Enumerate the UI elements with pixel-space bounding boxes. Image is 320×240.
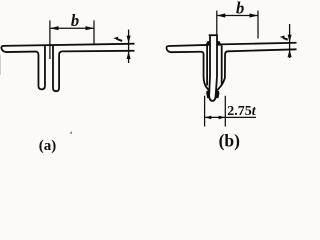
- figure (b) thickness dimension t: [289, 24, 291, 58]
- (b) small leader arrow: [280, 35, 285, 38]
- (b) left flange + lip outer: [166, 45, 209, 91]
- svg-text:(b): (b): [219, 130, 241, 150]
- arrow pointing down at plate top: [127, 36, 131, 44]
- svg-text:2.75t: 2.75t: [227, 104, 256, 119]
- (b) 2.75t dimension line with shelf: [205, 116, 256, 118]
- (b) t arrow pointing up at plate bottom: [288, 49, 292, 57]
- figure (b) dimension 2.75t: [205, 96, 256, 127]
- (b) flat bar left line: [208, 35, 211, 95]
- (b) b arrowhead left: [217, 13, 226, 17]
- (b) 2.75t extension line right: [224, 96, 226, 127]
- (b) thickness dimension line: [289, 24, 291, 58]
- figure (a): right flanged plate with down-turned lip: [53, 45, 135, 91]
- extension line left: [49, 20, 51, 59]
- svg-text:b: b: [71, 11, 79, 30]
- (b) b extension line right: [257, 11, 259, 39]
- (b) b arrowhead right: [250, 13, 259, 17]
- tiny speck: [70, 132, 72, 134]
- (b) 2.75t extension line left: [204, 96, 206, 127]
- (b) left lip inner line: [206, 45, 208, 85]
- weld bead top-left: [205, 41, 210, 46]
- (b) b dimension line: [217, 15, 257, 17]
- (b) t arrow pointing down at plate top: [288, 35, 292, 43]
- arrow pointing up at plate bottom: [127, 51, 131, 59]
- (b) 2.75t arrowhead right: [219, 116, 226, 120]
- dimension line: [51, 27, 94, 29]
- (b) flat bar top closure: [209, 34, 218, 36]
- figure (a) dimension b: [50, 20, 94, 59]
- extension line right: [93, 20, 95, 43]
- faint left-edge smudge: [0, 55, 1, 75]
- (b) flat bar right line: [216, 35, 217, 95]
- arrowhead left: [50, 26, 59, 30]
- figure (a): left flanged plate with down-turned lip: [1, 44, 134, 90]
- figure (a) thickness dimension t: [128, 30, 130, 63]
- (b) plate top line right part: [220, 43, 297, 45]
- weld bead top-right: [217, 41, 222, 46]
- svg-text:(a): (a): [39, 138, 57, 154]
- (a) thickness dimension line: [128, 30, 130, 63]
- (b) right flange + lip outer: [216, 49, 296, 90]
- (b) 2.75t arrowhead left: [205, 116, 212, 120]
- weld bead bottom-left: [206, 91, 209, 99]
- (b) weld beads: [205, 41, 221, 98]
- weld bead bottom-right: [216, 91, 220, 99]
- (b) b extension line left: [216, 11, 218, 35]
- small leader arrow: [113, 37, 118, 40]
- (b) flat bar bottom closure: [209, 95, 216, 101]
- figure (b) dimension b: [217, 11, 258, 39]
- arrowhead right: [86, 26, 95, 30]
- (b) right lip inner line: [221, 45, 223, 85]
- svg-text:b: b: [236, 0, 244, 18]
